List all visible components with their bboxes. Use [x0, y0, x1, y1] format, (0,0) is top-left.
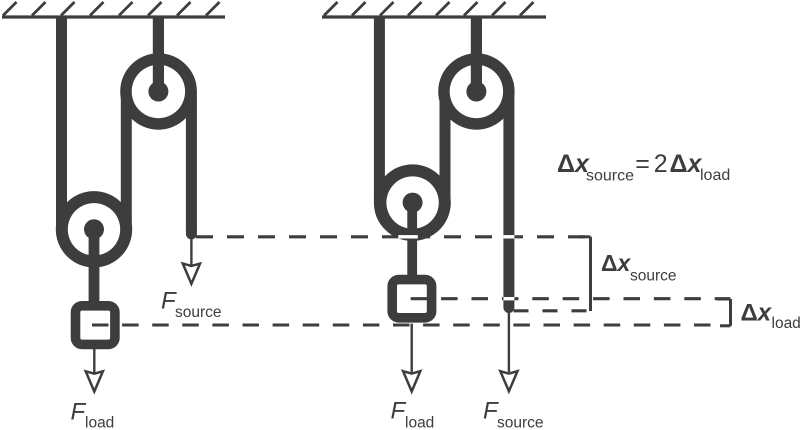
- svg-text:load: load: [772, 315, 800, 332]
- dashed line B2: new source end level: [514, 309, 587, 312]
- bracket delta-x load: [717, 299, 731, 326]
- fixed pulley left: hub: [148, 82, 168, 102]
- movable pulley right: wheel: [374, 164, 450, 240]
- svg-text:source: source: [497, 415, 544, 430]
- svg-text:load: load: [700, 167, 730, 184]
- dashed line A: white dash over right rope: [503, 235, 514, 238]
- svg-text:source: source: [586, 168, 634, 185]
- svg-text:source: source: [630, 268, 677, 285]
- svg-text:source: source: [175, 304, 222, 321]
- rope left free end (rounded tip): [186, 230, 197, 234]
- force arrow F_load left: [93, 349, 95, 373]
- svg-text:Δx: Δx: [670, 150, 703, 178]
- svg-text:load: load: [405, 415, 434, 430]
- ceiling right: [322, 2, 546, 17]
- fixed pulley right: hanger strut: [471, 17, 482, 92]
- load block left: [76, 306, 115, 345]
- movable pulley left: hub: [84, 219, 104, 239]
- movable pulley left: wheel: [56, 191, 132, 267]
- load block right: [392, 280, 431, 318]
- movable pulley right: hub: [403, 193, 423, 213]
- dashed line C: original load level: [92, 323, 713, 326]
- svg-text:load: load: [85, 415, 114, 430]
- ceiling left: [2, 2, 225, 17]
- movable pulley left: strut to load: [89, 229, 100, 305]
- svg-text:=: =: [635, 150, 650, 178]
- force arrow F_source right: [508, 311, 510, 372]
- svg-text:2: 2: [654, 150, 668, 178]
- svg-text:Δx: Δx: [741, 299, 773, 326]
- rope right free end (rounded tip): [503, 302, 514, 308]
- movable pulley right: strut to load: [407, 202, 417, 279]
- fixed pulley left: wheel: [120, 53, 196, 129]
- force arrow F_load right: [411, 324, 413, 372]
- bracket delta-x source: [579, 237, 591, 311]
- dashed line B: new load level: [411, 297, 731, 300]
- rope left system: [62, 17, 192, 262]
- rope right system: [379, 17, 509, 302]
- fixed pulley right: wheel: [438, 53, 514, 129]
- force arrow F_source left: [190, 239, 192, 265]
- dashed line B: white dash over right rope: [503, 297, 514, 300]
- svg-text:Δx: Δx: [601, 250, 632, 276]
- dashed line A: white dash over right pulley: [398, 235, 418, 238]
- dashed line A: original source end level: [196, 235, 590, 238]
- fixed pulley right: hub: [466, 82, 486, 102]
- fixed pulley left: hanger strut: [153, 17, 164, 92]
